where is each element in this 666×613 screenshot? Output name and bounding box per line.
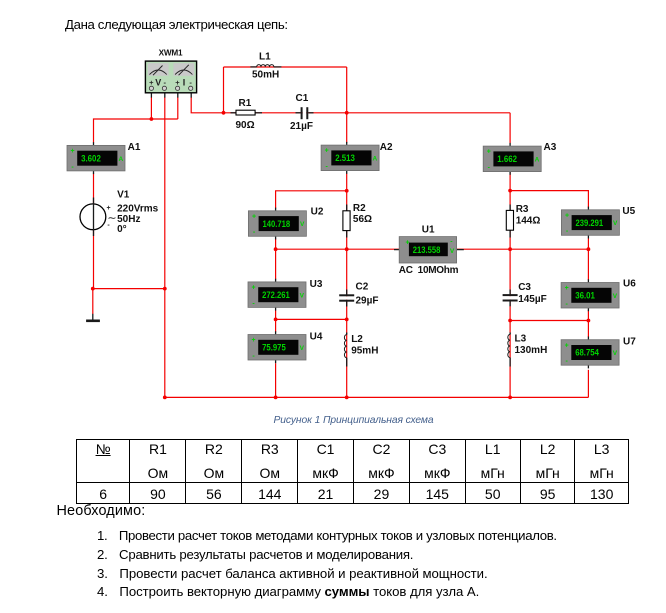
wire mid rail to U3 top <box>275 249 277 279</box>
svg-text:+: + <box>487 149 491 156</box>
svg-text:U7: U7 <box>623 336 636 347</box>
wire bottom rail <box>165 396 589 398</box>
svg-text:0°: 0° <box>117 224 127 235</box>
wire V+/I+ bus to A1 <box>94 119 178 143</box>
wire C3 branch <box>509 249 511 320</box>
svg-text:239.291: 239.291 <box>576 218 604 228</box>
junction J5 at (510.1,190.6) <box>508 189 512 193</box>
svg-text:A: A <box>118 156 123 163</box>
wire XWM1 I+ terminal down <box>177 97 179 119</box>
wire node to U7 top <box>587 321 589 338</box>
multimeter U1 <box>394 237 464 263</box>
junction J4 at (346.7,190.8) <box>345 189 349 193</box>
svg-text:L3: L3 <box>515 334 527 345</box>
svg-text:+: + <box>565 342 569 349</box>
capacitor C1 <box>303 107 307 120</box>
svg-text:A3: A3 <box>544 142 557 153</box>
svg-text:V: V <box>300 221 305 228</box>
svg-text:A: A <box>535 156 540 163</box>
svg-text:+: + <box>252 337 256 344</box>
svg-text:+: + <box>325 148 329 155</box>
wire A3 bottom to node <box>509 171 511 191</box>
svg-text:+: + <box>71 148 75 155</box>
problem statement text <box>65 17 288 32</box>
junction J1 at (151.4,119) <box>150 117 154 121</box>
svg-text:+: + <box>175 78 180 87</box>
svg-text:220Vrms: 220Vrms <box>117 204 159 215</box>
wire R3 branch <box>509 191 511 250</box>
svg-text:+: + <box>565 285 569 292</box>
wire L2 branch <box>346 319 348 397</box>
ammeter A1 <box>67 142 125 174</box>
svg-text:U2: U2 <box>311 207 324 218</box>
wire XWM1 I- terminal to R1 node <box>191 97 223 113</box>
junction J19 at (510.1,397.4) <box>508 396 512 400</box>
svg-text:272.261: 272.261 <box>262 290 290 300</box>
wire node to U2 top <box>276 191 347 209</box>
svg-text:1.662: 1.662 <box>497 154 517 164</box>
voltmeter U2 <box>248 208 306 240</box>
wire L3 branch <box>509 321 511 398</box>
ammeter A3 <box>483 143 541 175</box>
inductor L1 <box>250 65 281 67</box>
svg-text:AC 10MOhm: AC 10MOhm <box>399 265 459 276</box>
junction J16 at (164.8,397.4) <box>163 396 167 400</box>
svg-text:68.754: 68.754 <box>575 348 599 358</box>
wire mid rail to U6 top <box>587 249 589 280</box>
wire node to U5 top <box>510 191 588 208</box>
svg-text:75.975: 75.975 <box>262 343 286 353</box>
svg-text:U3: U3 <box>310 279 323 290</box>
wire V1 bottom down <box>93 230 95 289</box>
voltmeter U7 <box>561 337 619 369</box>
svg-text:U6: U6 <box>623 279 636 290</box>
svg-text:L2: L2 <box>351 334 363 345</box>
voltmeter U3 <box>248 279 306 311</box>
svg-text:U4: U4 <box>310 331 323 342</box>
junction J7 at (346.7,249.2) <box>345 247 349 251</box>
wire node to U4 top <box>275 319 277 332</box>
svg-text:90Ω: 90Ω <box>236 120 255 131</box>
svg-text:2.513: 2.513 <box>335 153 355 163</box>
wire XWM1 V+ terminal to node <box>150 97 152 119</box>
wire L1 branch left riser <box>223 67 225 113</box>
wire U7 bottom to bottom rail <box>587 370 589 398</box>
junction J10 at (275.6,319.4) <box>274 318 278 322</box>
svg-text:95mH: 95mH <box>351 346 378 357</box>
capacitor C3 <box>503 296 518 299</box>
svg-text:V: V <box>155 77 161 87</box>
voltmeter U6 <box>561 279 619 311</box>
svg-text:+: + <box>252 213 256 220</box>
figure caption <box>274 415 434 426</box>
svg-text:A1: A1 <box>128 142 141 153</box>
svg-text:V: V <box>300 292 305 299</box>
svg-text:U5: U5 <box>622 206 635 217</box>
svg-text:+: + <box>149 78 154 87</box>
svg-text:I: I <box>183 77 186 87</box>
svg-text:A2: A2 <box>380 142 393 153</box>
svg-text:36.01: 36.01 <box>575 291 595 301</box>
svg-text:213.558: 213.558 <box>413 245 441 255</box>
svg-text:3.602: 3.602 <box>81 153 101 163</box>
svg-text:R2: R2 <box>353 203 366 214</box>
wattmeter XWM1 <box>145 61 196 98</box>
junction J12 at (510.1,320.5) <box>508 319 512 323</box>
svg-text:R3: R3 <box>516 204 529 215</box>
junction J8 at (510.1,249.2) <box>508 247 512 251</box>
wire A1 bottom to V1 <box>93 174 95 205</box>
wire node to A2 <box>346 113 348 143</box>
svg-text:50mH: 50mH <box>252 70 279 81</box>
svg-text:U1: U1 <box>422 224 435 235</box>
wire V1 node to V- vertical <box>93 288 165 290</box>
AC source V1 <box>80 198 117 237</box>
svg-text:21µF: 21µF <box>290 121 313 132</box>
wire R2 branch <box>346 191 348 249</box>
svg-text:V: V <box>613 220 618 227</box>
voltmeter U4 <box>248 331 306 363</box>
svg-text:L1: L1 <box>259 52 271 63</box>
ammeter A2 <box>321 142 379 174</box>
svg-text:A: A <box>373 155 378 162</box>
wire U3 bottom to lower node <box>275 311 277 320</box>
junction J18 at (346.7,397.4) <box>345 396 349 400</box>
svg-text:140.718: 140.718 <box>263 219 291 229</box>
junction J2 at (223.5,112.8) <box>222 111 226 115</box>
wire R1 C1 row <box>224 112 511 114</box>
svg-text:V: V <box>450 248 455 255</box>
resistor R3 <box>509 205 511 211</box>
wire node to ground <box>92 289 94 314</box>
svg-text:+: + <box>406 240 410 247</box>
junction J11 at (346.7,319.4) <box>345 318 349 322</box>
svg-text:R1: R1 <box>239 98 252 109</box>
svg-text:C2: C2 <box>356 282 369 293</box>
ground <box>86 314 100 321</box>
inductor L2 <box>344 333 346 367</box>
wire A2 bottom to node <box>346 174 348 191</box>
wire L1 top span <box>224 66 347 68</box>
svg-text:145µF: 145µF <box>518 294 547 305</box>
wire U5 bottom to mid rail <box>587 239 589 250</box>
svg-text:C3: C3 <box>518 282 531 293</box>
wire L1 branch right riser <box>346 67 348 113</box>
svg-text:XWM1: XWM1 <box>159 49 183 58</box>
svg-text:144Ω: 144Ω <box>516 216 541 227</box>
junction J17 at (275.6,397.4) <box>274 396 278 400</box>
resistor R1 <box>231 110 263 115</box>
svg-text:56Ω: 56Ω <box>353 214 372 225</box>
svg-text:130mH: 130mH <box>515 345 548 356</box>
junction J13 at (588.4,320.5) <box>587 319 591 323</box>
voltmeter U5 <box>561 207 619 239</box>
svg-text:29µF: 29µF <box>356 296 379 307</box>
wire U4 bottom to bottom rail <box>275 363 277 397</box>
svg-text:+: + <box>107 205 111 212</box>
svg-text:V1: V1 <box>117 189 130 200</box>
junction J9 at (588.4,249.2) <box>587 247 591 251</box>
wire U6 bottom to lower node <box>587 310 589 320</box>
wire mid rail <box>276 248 589 250</box>
svg-text:+: + <box>252 285 256 292</box>
svg-text:V: V <box>613 350 618 357</box>
svg-text:+: + <box>565 212 569 219</box>
parameters table <box>76 439 629 504</box>
wire down to A3 <box>509 113 511 143</box>
junction J6 at (275.6,249.2) <box>274 247 278 251</box>
wire XWM1 V- terminal down to bottom rail <box>164 97 166 397</box>
junction J15 at (164.8,288.6) <box>163 287 167 291</box>
tasks text <box>57 503 146 519</box>
inductor L3 <box>508 333 510 367</box>
wire U2 bottom to mid rail <box>275 239 277 250</box>
svg-text:V: V <box>300 345 305 352</box>
wire C2 branch <box>346 249 348 319</box>
junction J14 at (92.8,288.6) <box>91 287 95 291</box>
wire lower node span right <box>510 320 588 322</box>
svg-text:C1: C1 <box>296 93 309 104</box>
wire lower node span left <box>276 318 347 320</box>
junction J3 at (346.7,112.8) <box>345 111 349 115</box>
svg-text:V: V <box>613 293 618 300</box>
capacitor C2 <box>339 296 354 299</box>
resistor R2 <box>346 205 348 211</box>
